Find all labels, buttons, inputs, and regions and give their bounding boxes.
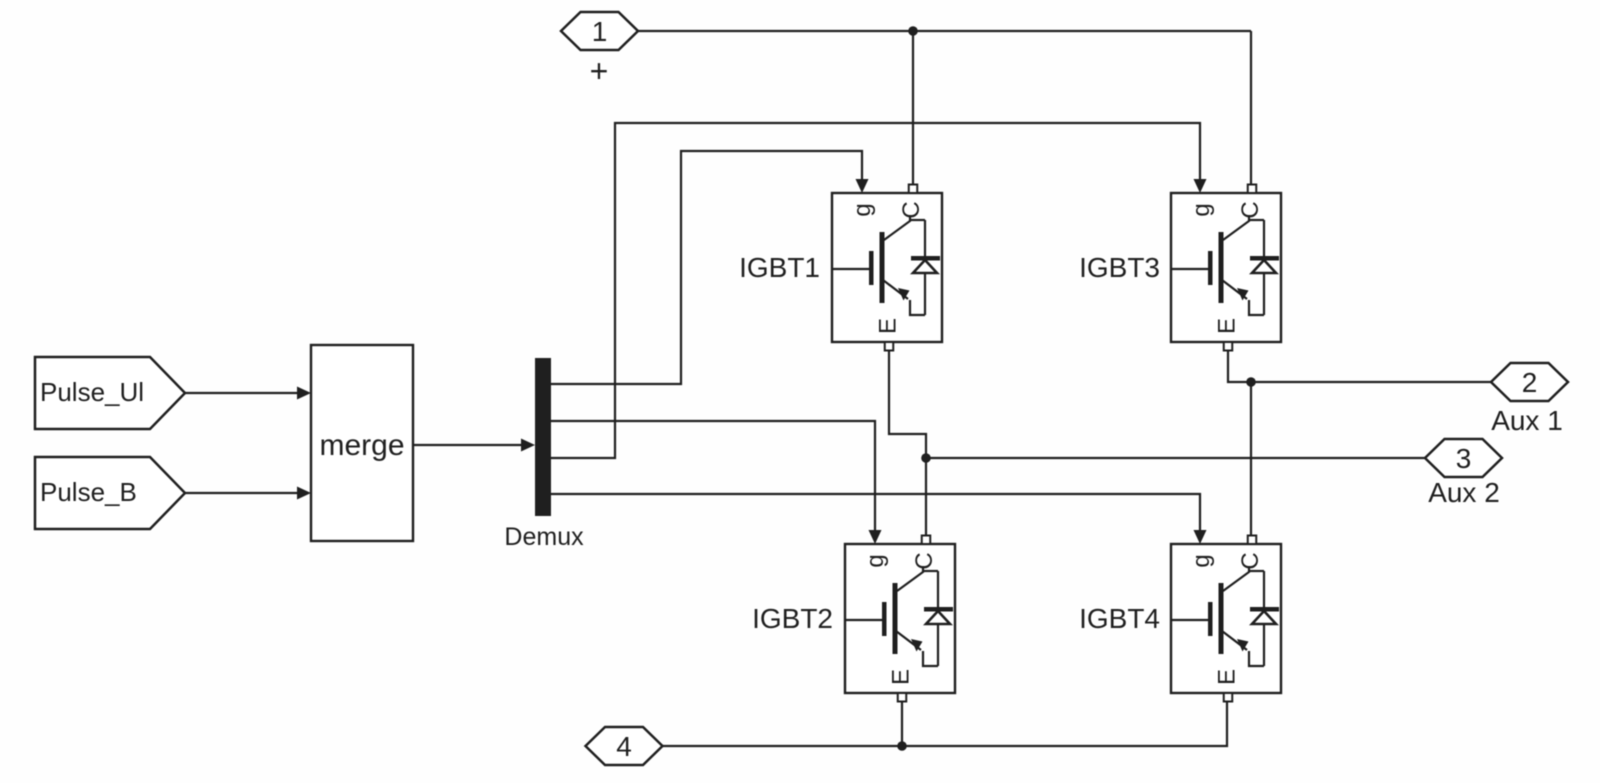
IGBT1 collector branch	[884, 215, 910, 240]
IGBT2 emitter branch with arrow	[896, 631, 921, 650]
IGBT2 collector port C	[922, 536, 931, 545]
IGBT3 gate bar	[1208, 251, 1213, 285]
outport 3 (Aux 2)	[1425, 439, 1502, 477]
junction node mid left leg	[921, 453, 931, 463]
svg-text:Demux: Demux	[504, 523, 584, 551]
IGBT3 emitter port E	[1224, 342, 1233, 351]
IGBT block IGBT3 body	[1171, 193, 1281, 342]
wire IGBT1 emitter to midpoint node	[889, 351, 926, 458]
wire DC+ down to IGBT3 collector	[1250, 31, 1252, 185]
wire Demux out4 to IGBT4 gate	[551, 494, 1200, 532]
IGBT1 collector port C	[909, 185, 918, 194]
IGBT3 antiparallel diode	[1263, 220, 1265, 257]
IGBT2 gate lead	[845, 619, 884, 621]
IGBT1 gate lead	[832, 268, 871, 270]
IGBT4 emitter port E	[1224, 693, 1233, 702]
IGBT4 collector port C	[1248, 536, 1257, 545]
wire right midpoint node down to IGBT4 collector	[1250, 382, 1252, 535]
junction node on DC+ rail	[908, 26, 918, 36]
svg-text:1: 1	[592, 16, 608, 47]
wire midpoint node to outport 3 (Aux 2)	[926, 457, 1425, 459]
wire bottom rail from port 4 to IGBT4 emitter	[661, 701, 1227, 746]
svg-text:C: C	[1237, 201, 1264, 218]
IGBT3 emitter branch with arrow	[1222, 280, 1247, 299]
IGBT block IGBT1 body	[832, 193, 942, 342]
svg-text:Pulse_Ul: Pulse_Ul	[40, 377, 144, 407]
svg-text:E: E	[1214, 318, 1241, 334]
svg-text:2: 2	[1522, 367, 1538, 398]
wire right midpoint node to outport 2 (Aux 1)	[1251, 381, 1491, 383]
outport 4 (DC -)	[586, 727, 663, 765]
IGBT3 gate lead	[1171, 268, 1210, 270]
IGBT3 collector branch	[1223, 215, 1249, 240]
inport 1 (DC +)	[561, 12, 638, 50]
svg-text:g: g	[1188, 554, 1215, 567]
IGBT4 body bar	[1219, 583, 1224, 654]
wire IGBT3 emitter to right midpoint node	[1228, 351, 1251, 382]
IGBT1 emitter port E	[885, 342, 894, 351]
IGBT4 emitter branch with arrow	[1222, 631, 1247, 650]
svg-text:3: 3	[1456, 443, 1472, 474]
svg-text:Aux 1: Aux 1	[1491, 405, 1563, 436]
IGBT1 gate bar	[869, 251, 874, 285]
svg-text:Aux 2: Aux 2	[1428, 477, 1500, 508]
IGBT2 body bar	[893, 583, 898, 654]
svg-text:E: E	[1214, 669, 1241, 685]
IGBT block IGBT2 body	[845, 544, 955, 693]
IGBT1 body bar	[880, 232, 885, 303]
outport 2 (Aux 1)	[1491, 363, 1568, 401]
svg-text:Pulse_B: Pulse_B	[40, 477, 137, 507]
IGBT4 gate bar	[1208, 602, 1213, 636]
Demux bar	[535, 358, 551, 516]
IGBT2 emitter port E	[898, 693, 907, 702]
IGBT3 collector port C	[1248, 185, 1257, 194]
IGBT4 gate lead	[1171, 619, 1210, 621]
svg-text:E: E	[875, 318, 902, 334]
IGBT block IGBT4 body	[1171, 544, 1281, 693]
IGBT2 gate bar	[882, 602, 887, 636]
wire Demux out2 to IGBT2 gate	[551, 421, 875, 532]
svg-text:g: g	[862, 554, 889, 567]
junction node mid right leg	[1246, 377, 1256, 387]
IGBT4 antiparallel diode	[1263, 571, 1265, 608]
svg-text:E: E	[888, 669, 915, 685]
svg-text:g: g	[849, 203, 876, 216]
wire midpoint node down to IGBT2 collector	[925, 458, 927, 535]
svg-text:merge: merge	[319, 429, 404, 462]
wire IGBT2 emitter down to bottom rail	[901, 701, 903, 746]
wire Demux out3 to IGBT3 gate	[551, 123, 1200, 458]
wire Pulse_Ul to merge input 1	[185, 392, 297, 394]
svg-text:IGBT3: IGBT3	[1079, 252, 1160, 283]
input tag Pulse_Ul	[35, 357, 185, 429]
svg-text:IGBT2: IGBT2	[752, 603, 833, 634]
svg-text:C: C	[1237, 552, 1264, 569]
svg-text:IGBT1: IGBT1	[739, 252, 820, 283]
svg-text:C: C	[911, 552, 938, 569]
wire Demux out1 to IGBT1 gate	[551, 151, 862, 384]
IGBT1 emitter branch with arrow	[883, 280, 908, 299]
wire DC+ rail from port 1 to IGBT3 collector	[638, 30, 1251, 32]
wire DC+ down to IGBT1 collector	[912, 31, 914, 185]
svg-text:g: g	[1188, 203, 1215, 216]
junction node on bottom rail	[897, 741, 907, 751]
input tag Pulse_B	[35, 457, 185, 529]
svg-text:+: +	[590, 53, 609, 89]
IGBT2 antiparallel diode	[937, 571, 939, 608]
IGBT4 collector branch	[1223, 566, 1249, 591]
merge block	[311, 345, 413, 541]
svg-text:IGBT4: IGBT4	[1079, 603, 1160, 634]
IGBT2 collector branch	[897, 566, 923, 591]
wire Pulse_B to merge input 2	[185, 492, 297, 494]
svg-text:C: C	[898, 201, 925, 218]
IGBT3 body bar	[1219, 232, 1224, 303]
wire merge output to Demux input	[413, 444, 521, 446]
svg-text:4: 4	[616, 731, 632, 762]
IGBT1 antiparallel diode	[924, 220, 926, 257]
